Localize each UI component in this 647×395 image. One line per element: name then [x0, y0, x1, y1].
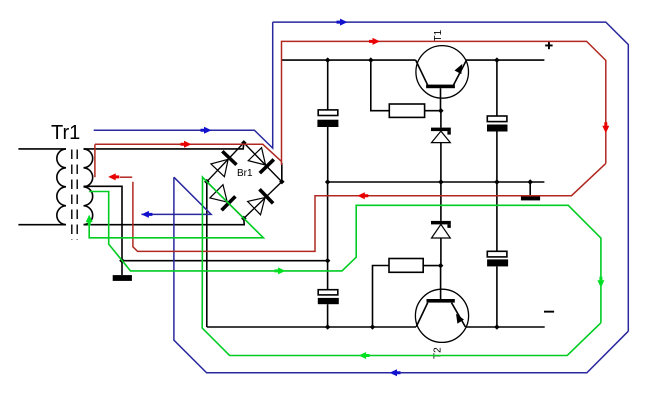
ground symbol at center tap: [113, 275, 132, 281]
current path blue arrow left on bottom wire: [390, 369, 401, 376]
bridge rectifier Br1 frame: [207, 143, 282, 219]
current path green arrow down on right side: [597, 277, 604, 288]
resistor R1 base bias upper: [371, 60, 390, 111]
transformer Tr1 primary winding: [57, 149, 66, 225]
current path blue arrow right on top wire: [337, 19, 348, 26]
current path red from transformer top terminal: [94, 144, 96, 177]
node top rail C1: [325, 57, 331, 63]
node bridge left: [204, 179, 210, 185]
ground symbol on 0V rail: [529, 182, 531, 196]
wire positive raw rail left section: [282, 59, 416, 61]
current path blue arrow left at return end: [141, 211, 152, 218]
capacitor C4 lower-right output cap: [496, 182, 498, 251]
current path red return end toward transformer: [120, 176, 133, 178]
wire secondary center tap: [84, 186, 123, 275]
current path green wire to right side: [285, 205, 601, 322]
capacitor C1 upper-left filter cap: [327, 60, 329, 110]
current path red arrow left at return end: [108, 173, 119, 180]
wire bridge right node up stub: [281, 163, 283, 182]
svg-text:T2: T2: [432, 347, 443, 359]
resistor R2 base bias lower: [373, 266, 390, 328]
node mid rail C2: [494, 179, 500, 185]
current path green bottom wire: [202, 177, 601, 355]
wire negative rail right section: [465, 326, 544, 328]
transformer Tr1 primary top lead wire: [18, 148, 66, 150]
node mid rail C1: [325, 179, 331, 185]
current path green arrow right lower left: [275, 267, 286, 274]
diode Br1 upper-left: [211, 150, 238, 177]
diode Br1 upper-right: [248, 147, 275, 174]
node top rail R1: [368, 57, 374, 63]
node bridge right: [279, 179, 285, 185]
node T1 base junction: [438, 108, 444, 114]
label - output terminal: [544, 311, 554, 313]
svg-text:T1: T1: [433, 29, 444, 41]
capacitor C2 upper-right output cap: [496, 60, 498, 116]
current path red return wire below 0V rail: [133, 163, 606, 251]
current path green arrow left on bottom wire: [359, 352, 370, 359]
node bottom rail C3: [325, 324, 331, 330]
node bridge bottom: [241, 216, 247, 222]
transformer Tr1 primary bottom lead wire: [18, 224, 66, 226]
current path red riser and top wire to + terminal: [282, 41, 606, 165]
current path green branch bridge left node to transformer bottom: [89, 182, 263, 238]
current path blue arrow right near transformer: [201, 127, 212, 134]
current path blue return jog toward transformer bottom: [141, 177, 211, 214]
wire positive output rail right section: [466, 59, 544, 61]
node T2 base junction: [438, 263, 444, 269]
current path red wire to bridge top node: [95, 144, 282, 161]
diode Br1 lower-left: [210, 184, 237, 211]
wire secondary bottom terminal to bridge bottom node: [84, 218, 245, 224]
current path blue AC loop: wire from transformer top area: [94, 22, 273, 148]
node 0V to C3 junction: [325, 258, 331, 264]
current path red arrow down on right side: [602, 122, 609, 133]
zener diode Z2 lower: [440, 182, 442, 221]
svg-text:Tr1: Tr1: [51, 122, 80, 144]
transistor T2 PNP pass transistor: [415, 289, 468, 342]
zener diode Z1 upper: [440, 111, 442, 128]
label + output terminal: [545, 45, 552, 47]
current path red arrow left on return wire: [357, 192, 368, 199]
node mid rail ground stub: [528, 179, 534, 185]
node bottom rail C4: [494, 324, 500, 330]
wire 0V mid rail: [328, 181, 545, 183]
node center tap ground junction: [119, 258, 125, 264]
node bridge top: [241, 140, 247, 146]
transformer Tr1 secondary winding: [84, 149, 93, 225]
current path green arrow up at transformer bottom: [86, 215, 93, 226]
capacitor C3 lower-left filter cap: [327, 182, 329, 290]
current path red arrow right near transformer: [181, 141, 192, 148]
wire negative rail left section: [207, 326, 416, 328]
wire bridge left node down to negative rail: [206, 182, 208, 327]
svg-text:Br1: Br1: [237, 168, 253, 179]
diode Br1 lower-right: [247, 188, 274, 215]
node top rail C2: [494, 57, 500, 63]
transistor T1 NPN pass transistor: [416, 46, 469, 99]
wire 0V center tap to filter caps: [122, 260, 328, 262]
current path blue top wire: [273, 22, 629, 331]
wire secondary top terminal to bridge top node: [84, 143, 244, 149]
node bottom rail R2: [370, 324, 375, 330]
transformer Tr1 core: [71, 150, 73, 241]
current path red arrow right on top wire: [369, 38, 380, 45]
current path blue bottom wire: [174, 177, 628, 373]
current path green from transformer bottom area: [89, 192, 285, 271]
node mid rail Z1/Z2: [438, 179, 444, 185]
